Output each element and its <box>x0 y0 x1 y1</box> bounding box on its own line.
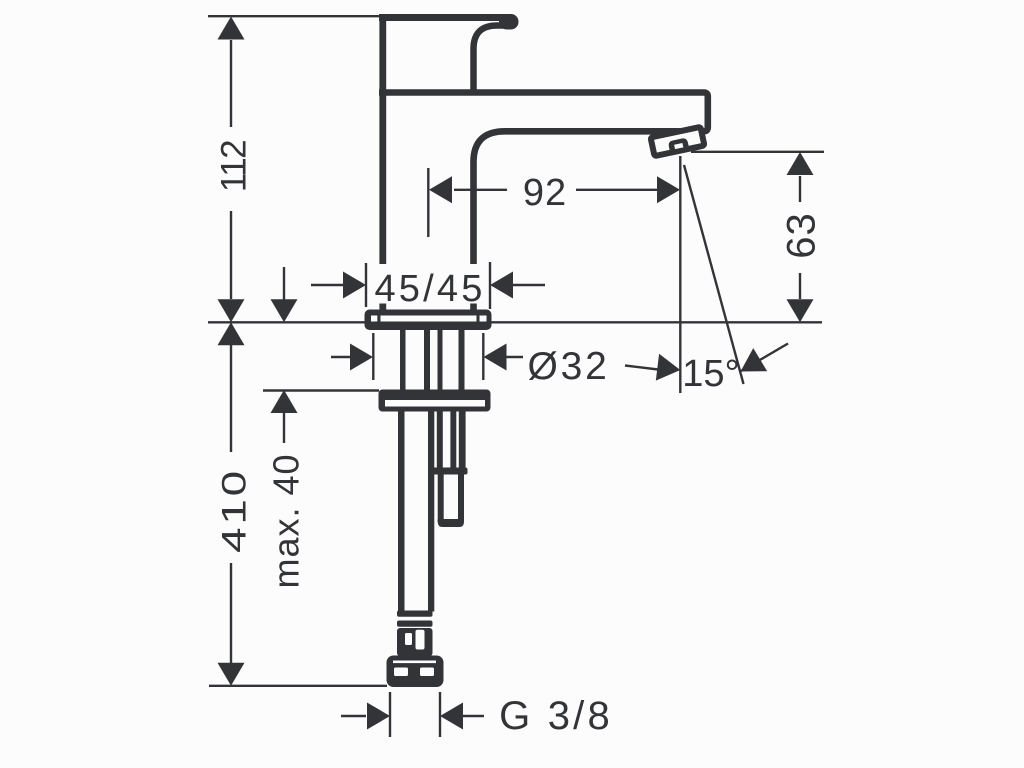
dim tail diam32 left <box>331 356 351 358</box>
arrow bowtie lower at deck <box>218 322 245 345</box>
arrow 45/45 right <box>490 272 513 299</box>
faucet body outline <box>379 14 708 311</box>
arrow G3/8 right <box>440 703 463 730</box>
dim stem 63 upper <box>799 176 801 202</box>
svg-text:15°: 15° <box>682 353 739 395</box>
extension line top of faucet <box>208 15 380 17</box>
arrow 15deg right <box>734 348 768 383</box>
base plate (escutcheon) <box>365 310 492 331</box>
arrow 410 bottom <box>218 663 245 686</box>
tick G3/8 right <box>439 692 441 737</box>
shank pipes below deck <box>400 330 465 391</box>
hose collar rings <box>397 611 433 627</box>
dim stem max40 lower <box>283 412 285 443</box>
svg-text:63: 63 <box>780 212 824 259</box>
arrow max40 top <box>271 299 298 322</box>
arrow diam32 left <box>350 344 373 371</box>
svg-text:45/45: 45/45 <box>374 268 485 310</box>
dim tail G3/8 right <box>462 715 484 717</box>
hose connector body <box>397 628 433 656</box>
dim stem 112 lower <box>230 211 232 299</box>
arrow 63 top <box>787 152 814 175</box>
tick 45/45 right <box>489 262 491 309</box>
svg-text:410: 410 <box>214 468 253 553</box>
dim tail G3/8 left <box>341 715 366 717</box>
body top / spout top outline <box>379 93 708 312</box>
arrow 92 left <box>429 176 452 203</box>
tick 45/45 left <box>365 263 367 307</box>
dim tail 45/45 left <box>311 284 344 286</box>
arrow max40 bottom <box>271 390 298 413</box>
tick diam32 left <box>372 333 374 380</box>
svg-text:112: 112 <box>215 141 254 192</box>
svg-text:max. 40: max. 40 <box>266 453 307 588</box>
arrow 45/45 left <box>343 272 366 299</box>
lever handle stem hook <box>474 26 512 91</box>
lever handle top bar <box>379 14 506 21</box>
dim stem max40 upper <box>283 267 285 300</box>
dimension texts <box>214 141 823 738</box>
dim stem 410 upper <box>230 345 232 452</box>
dim tail 15deg right <box>741 344 788 372</box>
mounting flange nut <box>379 390 491 412</box>
svg-text:G 3/8: G 3/8 <box>499 694 613 738</box>
arrow 92 right <box>657 176 680 203</box>
dim tail diam32 right <box>505 356 523 358</box>
extension line bottom (410) <box>209 685 387 687</box>
tick 92 left (center axis) <box>427 168 429 237</box>
arrow 112 top <box>218 17 245 40</box>
dim stem 63 lower <box>799 273 801 299</box>
tick diam32 right <box>482 333 484 380</box>
dim line 92 left segment <box>454 189 507 191</box>
arrow diam32 right <box>484 344 507 371</box>
svg-text:92: 92 <box>523 172 567 214</box>
arrow 63 bottom <box>787 299 814 322</box>
dim line 92 right segment <box>576 189 658 191</box>
dim tail 15deg left <box>625 366 658 370</box>
faucet left edge <box>379 14 386 311</box>
dim stem 112 upper <box>230 40 232 127</box>
white gap behind 45/45 text <box>375 264 486 304</box>
slanted 15 degree spray line <box>684 165 744 384</box>
supply pipe walls <box>398 412 434 612</box>
extension line flange top (max.40) <box>263 389 379 391</box>
extension line spout outlet (63) <box>691 151 824 153</box>
lever handle end cap <box>499 14 519 30</box>
aerator (tilted 15deg) <box>651 127 705 156</box>
dim stem 410 lower <box>230 563 232 663</box>
svg-text:Ø32: Ø32 <box>527 345 609 388</box>
tick G3/8 left <box>389 692 391 737</box>
threaded fixing rod <box>433 412 468 528</box>
G3/8 nut <box>387 656 444 688</box>
arrow bowtie upper at deck <box>218 299 245 322</box>
deck / reference line <box>208 321 822 323</box>
dim tail 45/45 right <box>512 284 545 286</box>
arrow G3/8 left <box>367 703 390 730</box>
extension line spout tip vertical <box>679 156 681 393</box>
arrow 15deg left <box>656 354 682 384</box>
